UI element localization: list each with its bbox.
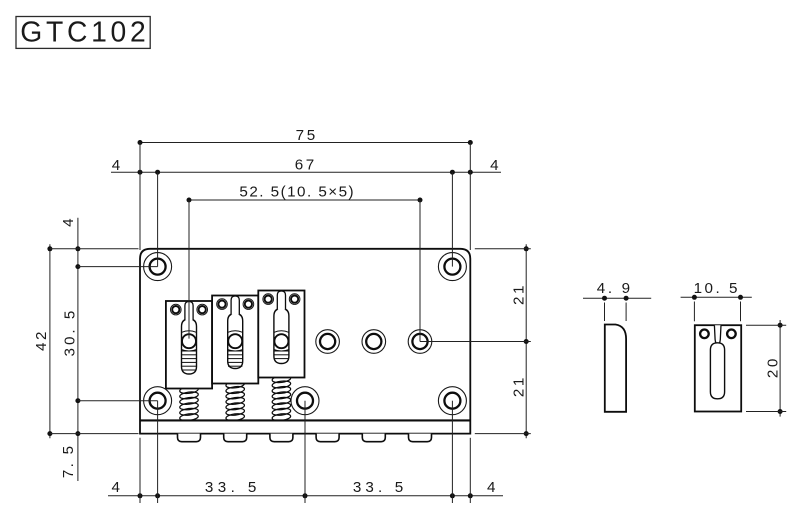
svg-text:4: 4	[112, 157, 120, 174]
svg-text:4: 4	[487, 479, 495, 496]
svg-text:10. 5: 10. 5	[694, 280, 738, 297]
svg-text:4: 4	[60, 218, 77, 226]
svg-text:52. 5(10. 5×5): 52. 5(10. 5×5)	[239, 184, 353, 201]
svg-text:33. 5: 33. 5	[205, 479, 256, 496]
svg-text:4: 4	[490, 157, 498, 174]
svg-text:30. 5: 30. 5	[62, 311, 79, 357]
svg-text:33. 5: 33. 5	[353, 479, 403, 496]
svg-text:4: 4	[111, 479, 119, 496]
